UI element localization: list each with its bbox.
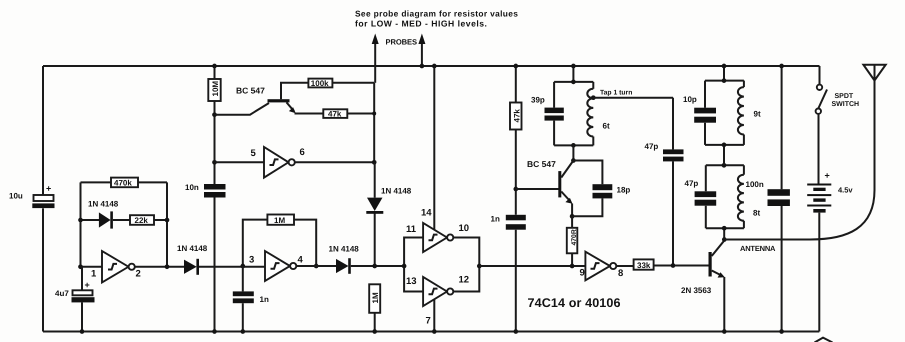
svg-text:Tap 1 turn: Tap 1 turn	[600, 90, 632, 97]
wire tap 1 turn	[593, 97, 673, 99]
svg-text:8t: 8t	[753, 209, 760, 218]
node tank3 bottom	[722, 143, 727, 148]
svg-text:+: +	[85, 280, 90, 290]
node gate6 output junction	[372, 160, 377, 165]
node 10M top rail	[212, 64, 217, 69]
svg-text:BC 547: BC 547	[236, 86, 265, 96]
svg-text:39p: 39p	[531, 96, 545, 105]
node tank1 top	[571, 80, 576, 85]
svg-text:1N 4148: 1N 4148	[329, 245, 360, 254]
wire pin14 supply	[433, 66, 435, 231]
resistor 1M vertical	[369, 284, 380, 331]
svg-text:11: 11	[406, 224, 417, 235]
node gate1 input tee	[78, 264, 83, 269]
svg-text:9t: 9t	[754, 110, 761, 119]
capacitor 18p	[572, 161, 630, 217]
wire feedback loop right vertical (gate1 output node)	[166, 182, 168, 266]
node collector	[571, 158, 576, 163]
diode D2 1N4148	[177, 244, 208, 275]
svg-text:1N 4148: 1N 4148	[381, 186, 412, 195]
svg-text:1M: 1M	[371, 292, 380, 303]
wire 10n to ground rail	[214, 198, 216, 332]
svg-text:10n: 10n	[185, 183, 199, 192]
capacitor 1n (gate3)	[233, 266, 269, 332]
svg-text:for LOW - MED - HIGH leve: for LOW - MED - HIGH levels.	[355, 18, 487, 28]
node gate3 input junction	[240, 264, 245, 269]
wire tank1 to collector node	[572, 145, 574, 160]
node emitter	[570, 214, 575, 219]
node 1n ground	[240, 329, 245, 334]
svg-text:ANTENNA: ANTENNA	[740, 244, 776, 253]
op-amp U1a inverter pins 1-2	[91, 251, 141, 283]
svg-text:100k: 100k	[311, 79, 329, 88]
svg-text:See probe diagram for resistor: See probe diagram for resistor values	[355, 9, 518, 19]
svg-text:10: 10	[459, 223, 470, 234]
svg-text:1: 1	[91, 269, 97, 280]
svg-text:47p: 47p	[685, 179, 699, 188]
node gate1 output tee	[165, 264, 170, 269]
svg-text:2N 3563: 2N 3563	[681, 286, 712, 295]
svg-text:8: 8	[618, 268, 623, 279]
svg-text:7: 7	[426, 316, 431, 327]
svg-text:1N 4148: 1N 4148	[88, 200, 119, 209]
wire main row to gate9	[479, 265, 585, 267]
wire antenna lead curve	[724, 81, 874, 240]
resistor 33k	[634, 259, 709, 269]
diode D1 1N4148	[88, 200, 119, 229]
capacitor C1 10u	[9, 184, 55, 209]
transistor Q1 BC547	[215, 83, 324, 115]
node emitter ground	[722, 329, 727, 334]
op-amp U1f inverter pins 9-8	[580, 252, 624, 281]
svg-text:18p: 18p	[617, 186, 631, 195]
capacitor 10n	[185, 183, 226, 197]
probe arrow right	[418, 34, 425, 69]
node gate5 input tap	[212, 160, 217, 165]
node 1M ground	[372, 329, 377, 334]
node bracket main row	[402, 264, 407, 269]
tank circuit 10p parallel 9t	[683, 66, 761, 145]
svg-text:5: 5	[251, 148, 257, 159]
node 100n rail	[779, 64, 784, 69]
svg-text:4: 4	[298, 254, 304, 265]
svg-text:2: 2	[136, 269, 141, 280]
wire diode/22k row	[81, 219, 100, 221]
wire 1n to ground	[515, 230, 517, 332]
battery 4.5v	[807, 171, 853, 332]
wire bottom rail	[43, 331, 819, 333]
svg-text:+: +	[46, 184, 51, 194]
wire 10M column	[214, 101, 216, 184]
resistor 10M vertical	[208, 66, 220, 101]
svg-text:1n: 1n	[260, 295, 269, 304]
node 47k tee	[372, 112, 376, 116]
svg-text:4u7: 4u7	[55, 289, 69, 298]
svg-text:14: 14	[421, 208, 432, 219]
wire gate1 input	[81, 266, 103, 268]
node 470R main row	[570, 264, 575, 269]
diode D3 1N4148	[329, 245, 405, 274]
svg-text:74C14 or 40106: 74C14 or 40106	[528, 296, 621, 310]
svg-text:47k: 47k	[513, 109, 522, 123]
node output bracket row	[477, 264, 482, 269]
capacitor C2 4u7	[55, 267, 95, 332]
svg-text:12: 12	[459, 275, 470, 286]
svg-text:10p: 10p	[683, 95, 697, 104]
wire feedback loop top	[81, 181, 168, 183]
tank circuit 39p parallel 6t	[531, 82, 610, 145]
svg-text:SPDT: SPDT	[835, 93, 854, 100]
node main junction diode/1M	[372, 264, 377, 269]
node 10n ground	[212, 329, 217, 334]
svg-text:470R: 470R	[571, 229, 578, 245]
resistor 47k horizontal	[323, 109, 374, 118]
svg-text:10u: 10u	[9, 192, 23, 201]
svg-text:10M: 10M	[211, 81, 220, 97]
svg-text:47k: 47k	[328, 110, 342, 119]
node pin14 rail	[432, 64, 437, 69]
switch SPDT	[816, 66, 860, 184]
svg-text:470k: 470k	[114, 179, 132, 188]
wire pin7 ground	[433, 299, 435, 332]
svg-text:6: 6	[300, 147, 305, 158]
node gate1 input/diode junction	[78, 218, 83, 223]
page corner mark	[815, 338, 833, 342]
wire input bracket gates 11/13	[404, 238, 423, 292]
wire left column upper	[42, 66, 44, 195]
wire feedback loop left vertical (gate1 input node)	[80, 182, 82, 266]
svg-text:1M: 1M	[274, 216, 285, 225]
wire gate5 output	[295, 161, 374, 163]
tank1 39p/6t feed	[572, 66, 574, 82]
capacitor 1n (base)	[491, 215, 526, 230]
capacitor 100n	[746, 66, 790, 332]
svg-text:1n: 1n	[491, 215, 500, 224]
svg-text:33k: 33k	[637, 261, 651, 270]
svg-text:9: 9	[580, 268, 585, 279]
antenna symbol	[863, 65, 885, 81]
node 47p/base junction	[671, 263, 676, 268]
node 1n ground	[513, 329, 518, 334]
svg-text:SWITCH: SWITCH	[832, 101, 860, 108]
wire 47k column to base node	[515, 130, 517, 215]
resistor 22k	[113, 215, 167, 225]
svg-text:BC 547: BC 547	[527, 159, 556, 169]
wire probe column upper	[373, 83, 375, 163]
resistor 1M horizontal with loop	[243, 215, 316, 267]
wire between tanks	[723, 146, 725, 166]
wire collector to tank2	[723, 228, 725, 239]
node tank1 bottom	[571, 143, 576, 148]
op-amp U1d inverter pins 11-10	[406, 208, 469, 253]
svg-text:6t: 6t	[603, 122, 610, 131]
op-amp U1c inverter pins 3-4	[249, 251, 304, 281]
note text top	[355, 9, 518, 29]
wire output bracket gates 10/12	[453, 238, 479, 292]
op-amp U1b inverter pins 5-6	[251, 147, 305, 178]
wire diode D2 to gate3 input	[199, 266, 265, 268]
svg-text:47p: 47p	[645, 142, 659, 151]
resistor 47k vertical	[510, 66, 522, 130]
node 47k top rail	[513, 64, 518, 69]
svg-text:100n: 100n	[746, 180, 764, 189]
capacitor 47p coupling	[645, 98, 684, 266]
node gate4 output junction	[314, 264, 319, 269]
probe arrow left	[372, 34, 379, 83]
node base tap	[212, 112, 217, 117]
node tank2 top	[722, 163, 727, 168]
svg-text:+: +	[825, 171, 830, 181]
op-amp U1e inverter pins 13-12	[406, 275, 469, 327]
svg-text:1N 4148: 1N 4148	[177, 244, 208, 253]
node 22k/loop junction	[165, 218, 170, 223]
node 4u7 ground	[80, 329, 85, 334]
node base junction	[513, 187, 518, 192]
resistor 470k	[111, 178, 138, 188]
wire left column lower	[42, 208, 44, 331]
transistor Q3 2N3563	[681, 241, 725, 332]
svg-text:PROBES: PROBES	[386, 38, 418, 47]
resistor 100k	[308, 79, 374, 88]
wire gate4 output row	[296, 265, 336, 267]
node pin7 ground	[432, 329, 437, 334]
wire gate1 output to diode D2	[135, 266, 184, 268]
node tank3 rail	[722, 64, 727, 69]
tank circuit 47p parallel 8t	[685, 165, 761, 228]
svg-text:3: 3	[249, 254, 254, 265]
svg-text:22k: 22k	[135, 216, 149, 225]
node tank2 bottom	[722, 226, 727, 231]
wire gate5 input	[215, 161, 265, 163]
node antenna junction	[722, 237, 727, 242]
resistor 470R vertical	[567, 216, 578, 266]
diode D4 1N4148 vertical	[366, 162, 411, 266]
wire top rail	[43, 65, 820, 67]
svg-text:13: 13	[406, 276, 417, 287]
node tank3 top	[722, 78, 727, 83]
svg-text:4.5v: 4.5v	[838, 186, 853, 195]
transistor Q2 BC547	[516, 159, 574, 216]
node coil tap	[591, 95, 596, 100]
wire gate8 output	[616, 265, 633, 267]
node 100n ground	[779, 329, 784, 334]
node tank1 rail	[571, 64, 576, 69]
